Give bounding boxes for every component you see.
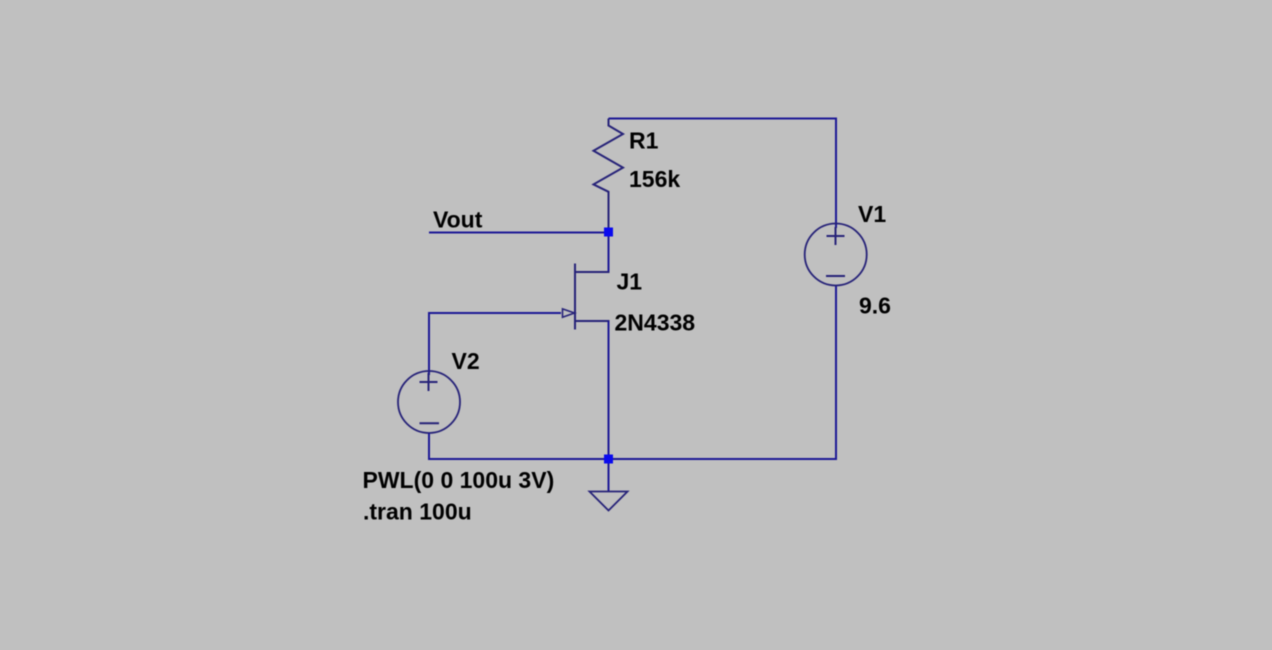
- svg-text:PWL(0 0 100u 3V): PWL(0 0 100u 3V): [363, 467, 555, 493]
- label V1: [858, 201, 886, 227]
- svg-text:.tran 100u: .tran 100u: [363, 499, 472, 525]
- resistor R1: [594, 119, 624, 233]
- svg-text:Vout: Vout: [433, 207, 483, 233]
- wire: J1 source to ground rail: [608, 321, 610, 459]
- ground: [590, 459, 628, 511]
- junction node at Vout/drain: [604, 228, 613, 237]
- wire: ground rail to V1 bottom: [610, 286, 836, 460]
- label J1: [617, 269, 643, 295]
- wire: V2 bottom to ground rail: [429, 433, 607, 459]
- wire: Vout stub: [429, 232, 607, 234]
- wire: gate from V2 to J1: [429, 313, 561, 375]
- label V2: [452, 348, 480, 374]
- value PWL(0 0 100u 3V): [363, 467, 555, 493]
- value 2N4338: [615, 310, 696, 336]
- svg-text:V2: V2: [452, 348, 480, 374]
- junction node on ground rail: [604, 455, 613, 464]
- label R1: [629, 128, 659, 154]
- value 156k: [629, 166, 680, 192]
- directive .tran 100u: [363, 499, 472, 525]
- svg-text:V1: V1: [858, 201, 886, 227]
- voltage source V1: [805, 224, 867, 286]
- transistor J1 (N-JFET 2N4338): [563, 264, 610, 330]
- svg-text:2N4338: 2N4338: [615, 310, 696, 336]
- svg-text:R1: R1: [629, 128, 659, 154]
- net label Vout: [433, 207, 483, 233]
- svg-text:J1: J1: [617, 269, 643, 295]
- voltage source V2: [398, 371, 460, 433]
- svg-text:9.6: 9.6: [859, 293, 891, 319]
- svg-text:156k: 156k: [629, 166, 680, 192]
- value 9.6: [859, 293, 891, 319]
- wire: top rail from R1 to V1: [609, 119, 837, 229]
- wire: drain of J1: [608, 232, 610, 273]
